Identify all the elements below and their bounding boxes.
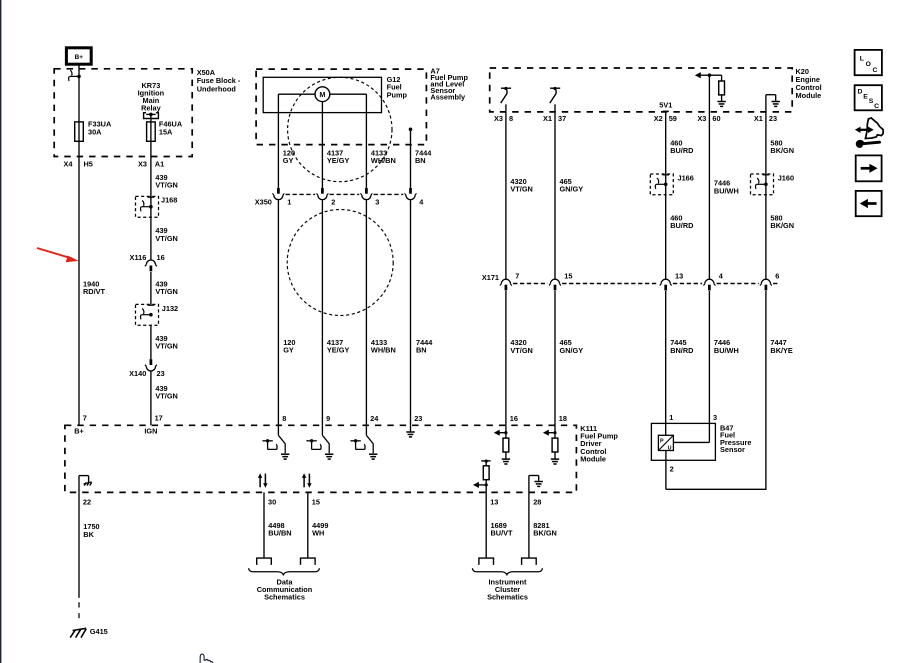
svg-text:X3: X3: [494, 114, 503, 123]
svg-text:X350: X350: [255, 197, 272, 206]
svg-text:15: 15: [564, 271, 572, 280]
svg-text:18: 18: [559, 414, 567, 423]
ECM internal: pin 23 ground: [765, 95, 767, 112]
connector X171 pin 15: [550, 279, 559, 284]
K111 internal driver pin 8: [277, 425, 279, 435]
svg-text:Module: Module: [580, 454, 606, 463]
svg-text:30A: 30A: [88, 127, 102, 136]
dashed continuation of ground wire: [78, 602, 80, 620]
A7 assembly dashed box: [256, 69, 426, 145]
relay KR73 contact symbol: [144, 113, 159, 119]
svg-text:VT/GN: VT/GN: [155, 180, 177, 189]
wire 7446 BU/WH from ECM pin 60: [708, 112, 710, 279]
svg-text:VT/GN: VT/GN: [510, 346, 532, 355]
svg-text:YE/GY: YE/GY: [327, 156, 350, 165]
svg-text:13: 13: [490, 497, 498, 506]
brace instrument cluster: [472, 568, 542, 575]
svg-text:X2: X2: [654, 114, 663, 123]
svg-text:B+: B+: [75, 54, 84, 61]
connector X171 pin 4: [705, 279, 714, 284]
svg-text:37: 37: [558, 114, 566, 123]
sensor pin 2 return wire: [665, 451, 667, 490]
svg-text:P: P: [660, 439, 664, 445]
fuel pump G12 box: [263, 77, 381, 112]
svg-text:BU/VT: BU/VT: [491, 529, 514, 538]
svg-text:BU/RD: BU/RD: [670, 146, 693, 155]
red annotation arrow: [37, 248, 73, 259]
svg-text:17: 17: [155, 414, 163, 423]
svg-text:28: 28: [533, 497, 541, 506]
svg-text:VT/GN: VT/GN: [510, 185, 532, 194]
icon box LOC: [855, 50, 882, 75]
inline connector X140 pin 23: [150, 359, 153, 365]
svg-text:RD/VT: RD/VT: [83, 287, 106, 296]
svg-text:GN/GY: GN/GY: [560, 185, 584, 194]
svg-text:E: E: [863, 93, 868, 100]
ground G415: [70, 628, 86, 637]
svg-text:C: C: [874, 103, 879, 110]
svg-text:M: M: [319, 90, 325, 99]
svg-text:BU/WH: BU/WH: [714, 346, 739, 355]
svg-text:60: 60: [712, 114, 720, 123]
svg-text:X140: X140: [129, 369, 146, 378]
pigtail connector: [479, 558, 494, 565]
wire 1750 BK: [78, 492, 80, 597]
wire B+ to fuse F33UA: [78, 64, 80, 141]
svg-text:GY: GY: [283, 345, 294, 354]
svg-text:BN/RD: BN/RD: [670, 346, 693, 355]
K111 internal pin 18 input: [554, 425, 556, 438]
pigtail connector: [522, 558, 537, 565]
wire 580 BK/GN from ECM pin 23: [765, 112, 767, 279]
5V1 supply stub: [663, 110, 669, 112]
splice in fuse block: [77, 75, 81, 79]
svg-text:Schematics: Schematics: [264, 593, 305, 602]
svg-text:3: 3: [713, 413, 717, 422]
wire x=410.5: [410, 200, 412, 425]
svg-text:IGN: IGN: [144, 427, 157, 436]
K111 internal driver pin 24: [365, 425, 367, 435]
connector X350 pin 2: [321, 188, 324, 194]
svg-text:GN/GY: GN/GY: [560, 346, 584, 355]
left window border: [0, 0, 1, 663]
svg-text:8: 8: [282, 414, 286, 423]
wire x=366.4: [365, 200, 367, 425]
connector X171 pin 7: [501, 279, 510, 284]
svg-text:J168: J168: [161, 195, 177, 204]
svg-text:2: 2: [331, 197, 335, 206]
connector X350 pin 3: [365, 188, 368, 194]
svg-text:BN: BN: [415, 156, 426, 165]
svg-text:6: 6: [775, 271, 779, 280]
svg-text:H5: H5: [84, 160, 93, 169]
wire F33UA to module pin 7: [78, 141, 80, 425]
svg-text:X1: X1: [754, 114, 763, 123]
svg-text:Relay: Relay: [141, 103, 162, 112]
inline connector X171 row: [513, 283, 548, 285]
sensor internal wire pin3: [673, 441, 709, 443]
svg-text:X4: X4: [64, 160, 74, 169]
svg-text:WH: WH: [312, 529, 324, 538]
pigtail connector: [257, 558, 272, 565]
K111 internal pin 28 ground: [528, 476, 530, 493]
splice J168: [136, 196, 159, 217]
module K111 dashed box: [65, 425, 577, 492]
svg-text:C: C: [872, 67, 877, 74]
wire 460 BU/RD from ECM pin 59: [665, 112, 667, 279]
svg-text:BU/BN: BU/BN: [268, 529, 291, 538]
svg-text:VT/GN: VT/GN: [155, 342, 177, 351]
svg-text:1: 1: [669, 413, 673, 422]
svg-text:30: 30: [268, 497, 276, 506]
svg-text:23: 23: [769, 114, 777, 123]
svg-text:VT/GN: VT/GN: [155, 391, 177, 400]
fuse block X50A dashed box: [54, 69, 192, 157]
svg-text:BK/GN: BK/GN: [770, 146, 794, 155]
svg-text:23: 23: [414, 414, 422, 423]
svg-text:WH/BN: WH/BN: [371, 156, 396, 165]
svg-text:VT/GN: VT/GN: [155, 234, 177, 243]
svg-text:15: 15: [312, 497, 320, 506]
motor M circle: [315, 87, 330, 102]
wire 439 VT/GN ignition feed: [150, 141, 152, 260]
svg-text:G415: G415: [90, 627, 108, 636]
svg-text:BK: BK: [83, 530, 94, 539]
K111 internal ground pin 23: [410, 425, 412, 431]
level sensor tap node: [409, 128, 413, 132]
svg-text:Sensor: Sensor: [720, 445, 745, 454]
svg-text:O: O: [866, 61, 871, 68]
svg-text:A1: A1: [155, 160, 164, 169]
wire 465 GN/GY from ECM pin 37: [554, 112, 556, 279]
svg-text:Pump: Pump: [387, 90, 408, 99]
wire 7445 BN/RD to sensor pin 1: [665, 291, 667, 435]
connector X171 pin 6: [761, 279, 770, 284]
ECM internal: pin 60 pull-down resistor and arrow: [708, 75, 710, 112]
svg-text:16: 16: [510, 414, 518, 423]
svg-text:15A: 15A: [159, 127, 173, 136]
svg-text:1: 1: [287, 197, 291, 206]
svg-text:5V1: 5V1: [659, 101, 672, 110]
svg-text:7: 7: [515, 271, 519, 280]
connector X350 pin 4: [409, 188, 412, 194]
fuel tank dashed circle lower: [287, 210, 393, 316]
svg-text:B+: B+: [74, 427, 84, 436]
svg-text:X3: X3: [697, 114, 706, 123]
icon box back arrow: [856, 191, 882, 216]
inline connector X116 pin 16: [146, 260, 155, 265]
wire x=322.4: [321, 200, 323, 425]
wire 7447 BK/YE to sensor pin 2: [765, 291, 767, 489]
P/U transducer symbol: [658, 435, 673, 450]
svg-text:BK/YE: BK/YE: [770, 346, 793, 355]
svg-text:Schematics: Schematics: [487, 593, 528, 602]
svg-text:Assembly: Assembly: [430, 92, 466, 101]
fuel tank dashed circle upper: [288, 77, 392, 181]
splice J166: [650, 174, 673, 195]
svg-text:BK/GN: BK/GN: [533, 529, 557, 538]
sensor B47 box: [651, 423, 715, 460]
K111 serial data arrows pin 15: [303, 478, 305, 488]
fuse F33UA 30A: [75, 122, 84, 141]
svg-text:X116: X116: [130, 253, 147, 262]
svg-text:59: 59: [669, 114, 677, 123]
svg-text:S: S: [869, 98, 874, 105]
brace data communication: [249, 568, 320, 575]
svg-text:L: L: [860, 55, 864, 62]
svg-text:7: 7: [83, 414, 87, 423]
svg-text:2: 2: [670, 465, 674, 474]
splice J132: [136, 304, 159, 325]
svg-text:VT/GN: VT/GN: [155, 287, 177, 296]
wire 4320 VT/GN from ECM pin 8: [505, 112, 507, 279]
hand cursor: [200, 654, 214, 663]
svg-text:BN: BN: [416, 345, 427, 354]
K111 internal pin 22 ground: [78, 476, 80, 493]
K111 internal pin 16 input: [505, 425, 507, 438]
battery feed terminal B+: [66, 48, 91, 64]
svg-text:4: 4: [719, 271, 724, 280]
icon box DESC: [855, 85, 882, 110]
svg-text:22: 22: [83, 497, 91, 506]
K111 internal pin 13 output: [481, 460, 490, 462]
svg-text:J160: J160: [778, 173, 794, 182]
wire x=278.4: [277, 200, 279, 425]
icon box next arrow: [856, 155, 882, 181]
svg-text:J132: J132: [162, 304, 178, 313]
svg-text:YE/GY: YE/GY: [327, 345, 350, 354]
svg-text:D: D: [857, 89, 862, 96]
svg-text:GY: GY: [283, 156, 294, 165]
svg-text:24: 24: [370, 414, 379, 423]
svg-text:Module: Module: [796, 91, 822, 100]
svg-text:U: U: [668, 446, 672, 452]
wire 4320 VT/GN to K111 pin 16: [505, 291, 507, 425]
pump internal wires: [278, 93, 315, 95]
svg-text:13: 13: [675, 271, 683, 280]
svg-text:23: 23: [157, 369, 165, 378]
svg-text:8: 8: [509, 114, 513, 123]
wire 465 GN/GY to K111 pin 18: [554, 291, 556, 425]
ECM K20 dashed box: [490, 68, 793, 112]
svg-text:X1: X1: [543, 114, 552, 123]
ECM internal switch at 505.9: [501, 87, 511, 89]
svg-text:WH/BN: WH/BN: [371, 345, 396, 354]
svg-text:BU/WH: BU/WH: [714, 186, 739, 195]
svg-text:4: 4: [419, 197, 424, 206]
svg-text:X3: X3: [138, 160, 147, 169]
svg-text:Underhood: Underhood: [197, 85, 236, 94]
icon wrench/diagnostic: [865, 118, 883, 139]
K111 serial data arrows pin 30: [259, 478, 261, 488]
pigtail connector: [301, 558, 316, 565]
svg-text:J166: J166: [678, 173, 694, 182]
svg-text:X171: X171: [482, 273, 499, 282]
svg-text:BU/RD: BU/RD: [670, 221, 693, 230]
connector X350 row: [286, 193, 316, 195]
connector X171 pin 13: [661, 279, 670, 284]
svg-text:16: 16: [157, 253, 165, 262]
fuse F46UA 15A: [147, 122, 156, 141]
K111 internal driver pin 9: [321, 425, 323, 435]
splice J160: [751, 174, 774, 195]
connector X350 pin 1: [277, 188, 280, 194]
wire 7446 BU/WH to sensor pin 3: [708, 291, 710, 442]
svg-text:BK/GN: BK/GN: [770, 221, 794, 230]
svg-text:3: 3: [375, 197, 379, 206]
ECM internal switch at 555.0: [550, 87, 560, 89]
svg-text:9: 9: [326, 414, 330, 423]
